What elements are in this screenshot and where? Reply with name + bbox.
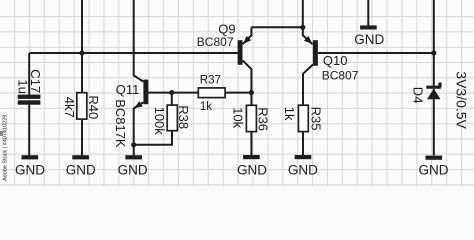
wire R38 top [171,93,173,106]
svg-text:1k: 1k [282,107,297,121]
svg-text:10k: 10k [231,107,246,128]
wire Q11 base to R37 [148,92,198,94]
svg-text:BC807: BC807 [197,35,234,49]
Q11 emitter arrow [134,101,143,108]
svg-text:BC807: BC807 [322,69,359,83]
svg-text:GND: GND [237,162,267,177]
R37 body [198,88,225,98]
wire top rail [251,26,302,28]
svg-text:Adobe Stock | #407410229: Adobe Stock | #407410229 [3,115,9,181]
svg-text:GND: GND [288,162,318,177]
resistor R36 [231,105,271,131]
wire Q9 collector to R36 [243,60,252,105]
svg-text:GND: GND [118,162,148,177]
wire C17 top lead [28,53,30,95]
svg-text:1k: 1k [200,101,212,113]
D4 anode triangle [427,89,441,100]
svg-text:Q10: Q10 [323,53,348,68]
C17 bottom plate [18,100,41,104]
svg-text:R36: R36 [256,107,271,131]
junction node B: R37/R36/Q9 collector [249,90,254,95]
wire D4 anode to GND [433,89,435,156]
svg-text:GND: GND [15,162,45,177]
ground under R36 [237,155,267,177]
svg-text:1u: 1u [16,79,31,93]
svg-text:GND: GND [419,163,449,178]
svg-text:4k7: 4k7 [62,97,77,118]
junction node at D4 [431,50,436,55]
wire Q11 emitter diagonal [134,102,144,108]
ground under Q11 [118,155,148,177]
wire R38 bottom to emitter node [134,131,172,145]
svg-text:100k: 100k [152,107,167,136]
wire R37 to node B [225,92,251,94]
D4 cathode bar [426,83,441,88]
wire R40 to GND [81,119,83,155]
wire Q10 collector to R35 [303,65,313,106]
svg-text:Q11: Q11 [116,82,140,97]
resistor R37 [198,74,225,113]
wire R35 to GND [302,132,304,156]
resistor R38 [152,105,191,135]
resistor R40 [62,93,101,120]
R38 body [167,105,177,131]
Q11 base bar [143,80,148,105]
R36 body [246,105,256,131]
wire Q11 emitter to GND [133,108,135,155]
wire mid rail left to Q9 base [29,52,237,54]
svg-text:D4: D4 [411,87,426,104]
Q10 emitter arrow [304,36,313,44]
wire Q9 emitter [243,27,252,44]
junction node at rail/R40 [79,50,84,55]
svg-text:R38: R38 [176,105,191,129]
svg-text:GND: GND [66,162,96,177]
svg-text:R35: R35 [309,107,324,131]
C17 top plate [18,95,41,99]
resistor R35 [282,105,323,131]
R35 body [298,105,308,131]
ground under C17 [15,155,45,177]
R40 body [77,93,87,119]
svg-text:BC817K: BC817K [113,99,128,148]
svg-text:R40: R40 [86,95,101,119]
ground under R35 [288,155,318,177]
junction node Q11 emitter / R38 [131,142,136,147]
wire C17 bottom lead [28,105,30,156]
wire Q10 base to D4 node [318,52,434,54]
capacitor C17 [16,69,43,104]
ground top [354,25,384,47]
Q10 base bar [313,40,318,66]
svg-text:R37: R37 [200,74,221,86]
Q9 base bar [238,40,243,65]
junction node at top rail [300,25,305,30]
ground under D4 [419,156,449,178]
wire Q10 emitter [303,0,313,44]
wire R36 to GND [250,132,252,156]
wire supply drop to R40 [81,0,83,93]
svg-text:3V3/0.5V: 3V3/0.5V [454,71,470,129]
wire supply drop to D4 [433,0,435,86]
junction node Q11 base / R38 [169,90,174,95]
wire Q11 collector [134,0,144,82]
svg-text:GND: GND [354,32,384,47]
wire top GND stub [367,0,369,26]
transistor Q2 (PNP) Q9 [197,22,251,65]
transistor Q11 (NPN) [113,80,148,148]
zener diode D4 [411,71,470,129]
transistor Q10 (PNP) [304,36,359,83]
Q9 emitter arrow [243,36,251,44]
ground under R40 [66,155,96,177]
